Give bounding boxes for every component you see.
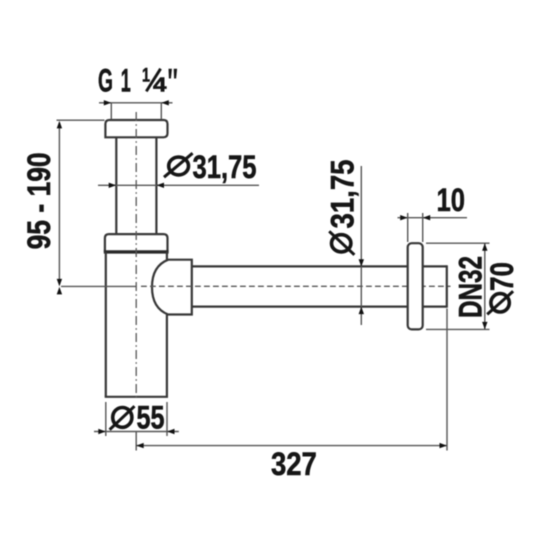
wall flange: [408, 243, 423, 329]
label inlet diameter symbol slash: [164, 153, 193, 177]
label inlet diameter symbol circle: [169, 157, 189, 175]
dim 10 arrow left: [400, 215, 408, 220]
pipe stub top: [423, 265, 447, 267]
dim G11/4 line: [99, 102, 173, 104]
cup right wall upper segment: [166, 252, 168, 260]
label D55 symbol slash: [110, 406, 135, 430]
inlet pipe wall right: [155, 137, 157, 234]
cup bottom: [105, 396, 168, 398]
dim D70 arrow top: [482, 243, 487, 251]
dim D70 ext top: [426, 242, 490, 244]
dim D70 arrow bottom: [482, 322, 487, 330]
dim G arrow left: [104, 100, 112, 105]
dim inlet diameter line: [98, 184, 259, 186]
dim 10 line: [398, 217, 468, 219]
svg-text:95 - 190: 95 - 190: [21, 152, 57, 249]
cup right wall lower segment: [166, 314, 168, 397]
label D70 rotated symbol slash: [487, 291, 513, 314]
svg-text:1: 1: [121, 62, 131, 98]
body top nut: [105, 234, 168, 252]
label G 1 1/4" : fraction slash: [146, 69, 160, 92]
dim G ext left: [110, 103, 112, 119]
outlet pipe top line: [192, 265, 408, 267]
centerline vertical (trap axis): [135, 112, 137, 401]
body joint thick line: [104, 250, 169, 253]
inlet flange (top nut): [105, 120, 167, 137]
dim outlet arrow bottom: [359, 307, 364, 315]
label D70 rotated symbol circle: [491, 294, 509, 312]
dim D55 arrow left: [98, 429, 106, 434]
centerline horizontal (outlet axis): [141, 285, 451, 287]
dim 327 ext right: [446, 309, 448, 451]
dim 95-190 bottom reference line: [61, 285, 137, 287]
outlet nut connector: [152, 260, 192, 315]
dim D70 ext bottom: [426, 328, 490, 330]
label outlet diameter rotated symbol circle: [332, 235, 351, 252]
dim 10 ext left: [407, 213, 409, 242]
svg-text:31,75: 31,75: [193, 149, 257, 185]
dim 327 line: [136, 445, 447, 447]
dim D70 line: [484, 243, 486, 329]
dim 327 arrow left: [136, 443, 144, 448]
svg-text:10: 10: [437, 182, 466, 218]
dim inlet arrow right: [157, 183, 165, 188]
inlet pipe wall left: [115, 137, 117, 234]
dim D55 arrow right: [167, 429, 175, 434]
dim 10 ext right: [422, 213, 424, 242]
label D55 symbol circle: [113, 408, 132, 428]
svg-text:327: 327: [271, 446, 317, 482]
pipe end cap: [446, 265, 448, 307]
svg-text:55: 55: [137, 399, 165, 435]
cup left wall: [105, 252, 107, 397]
dim 327 arrow right: [440, 443, 448, 448]
dim G arrow right: [161, 100, 169, 105]
dim 95-190 ext top: [57, 119, 105, 121]
dim D55 ext right: [166, 402, 168, 436]
label G 1 1/4" : inch double prime: [169, 69, 178, 79]
svg-text:4: 4: [153, 74, 168, 96]
dim outlet arrow top: [359, 259, 364, 267]
dim inlet arrow left: [109, 183, 117, 188]
dim 95-190 arrow bottom down: [57, 279, 62, 287]
dim outlet diameter line: [360, 166, 362, 325]
label outlet diameter rotated symbol slash: [329, 231, 354, 255]
dim 327 ext left: [135, 432, 137, 451]
dim 95-190 line: [58, 123, 60, 285]
svg-text:G: G: [98, 62, 113, 98]
dim G ext right: [160, 103, 162, 119]
dim 95-190 arrow top: [57, 121, 62, 128]
svg-text:31,75: 31,75: [325, 160, 361, 229]
pipe stub bottom: [423, 306, 447, 308]
outlet pipe bottom line: [192, 306, 408, 308]
dim 10 arrow right: [423, 215, 431, 220]
dim D55 ext left: [105, 402, 107, 436]
svg-text:70: 70: [484, 262, 520, 291]
svg-text:1: 1: [142, 66, 150, 87]
dim 95-190 arrow bottom up: [57, 287, 62, 295]
dim D55 line: [94, 431, 179, 433]
